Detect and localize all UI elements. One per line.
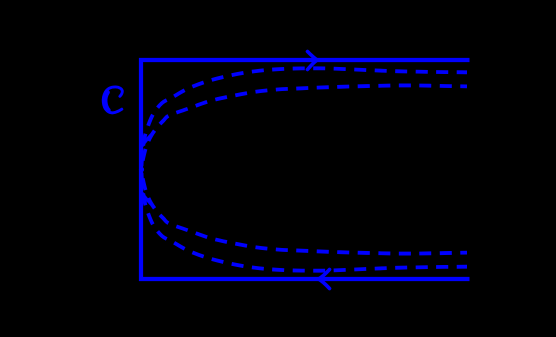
- dashed trajectory: top outer curve: [142, 68, 468, 166]
- contour C solid outline (top edge, left edge, bottom edge): [141, 60, 470, 279]
- convergence point on left edge: [139, 167, 144, 172]
- dashed trajectory: top inner curve: [142, 85, 468, 167]
- label C (contour name): [103, 87, 122, 113]
- arrow on bottom edge pointing left: [319, 270, 330, 289]
- dashed trajectory: bottom inner curve: [142, 172, 468, 254]
- arrow on top edge pointing right: [308, 52, 318, 70]
- dashed trajectory: bottom outer curve: [142, 173, 468, 271]
- arrowhead on top outer curve pointing toward convergence point: [141, 133, 151, 144]
- arrowhead on bottom outer curve pointing toward convergence point: [141, 196, 151, 207]
